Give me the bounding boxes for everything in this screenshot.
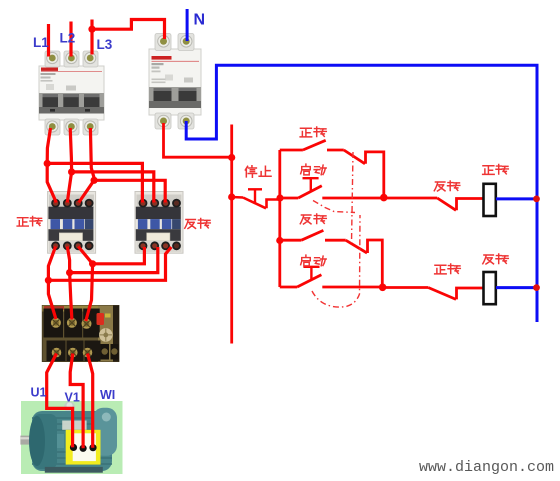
wire coil1 to N (blue) xyxy=(496,197,537,200)
circuit breaker QF2 (2-pole DELIXI DZ47-63) xyxy=(149,34,201,130)
wire swap phase to KM2 out1 xyxy=(93,247,145,264)
mechanical linkage dash (forward NC to reverse NC) xyxy=(352,152,354,243)
wire KM1 out2 to relay T2 xyxy=(67,247,72,320)
label 反转 (coil row2) xyxy=(483,254,509,264)
node branch2 split xyxy=(276,237,283,244)
label 启动 (reverse start) xyxy=(301,255,327,266)
contactor KM1 (forward) xyxy=(48,192,96,254)
coil KM1 正转 xyxy=(484,184,496,216)
node coil1-N junction xyxy=(533,196,540,203)
label 启动 (forward start) xyxy=(301,164,327,175)
wire swap phase to KM2 out3 xyxy=(48,247,171,280)
wire control left rail xyxy=(230,125,233,344)
KM1 NC contact 正转 in coil row 2 xyxy=(383,288,483,300)
wire L3 feed xyxy=(90,20,93,55)
wire relay to motor U1 xyxy=(47,354,73,448)
stop button SB1 (NC) 停止 xyxy=(232,189,280,208)
node forward branch merge xyxy=(380,194,388,202)
start button SB3 启动 (NO) reverse xyxy=(280,267,383,287)
motor M (photo on green background) xyxy=(20,401,122,474)
label 反转 (reverse holding contact) xyxy=(300,214,326,224)
node out3 xyxy=(89,260,96,267)
label 反转 (NC contact row1) xyxy=(434,181,460,191)
label 反转 (right of KM2) xyxy=(185,218,211,228)
svg-text:WI: WI xyxy=(100,388,115,402)
label 正转 (forward holding contact) xyxy=(300,127,326,137)
label 正转 (NC contact row2) xyxy=(435,264,461,274)
KM2 interlock contact (NC) in forward branch xyxy=(344,150,384,198)
coil KM2 反转 xyxy=(484,272,496,304)
wire QF1 pole1 to KM1 terminal1 xyxy=(47,128,56,203)
KM2 NC contact 反转 in coil row 1 xyxy=(384,198,483,210)
label 停止 (stop) xyxy=(245,166,271,177)
wire phase1 branch to KM2 terminal1 xyxy=(47,163,142,202)
start button SB2 启动 (NO) forward xyxy=(280,178,384,198)
wire KM1 out1 to relay T1 xyxy=(48,247,56,320)
wire QF1 pole2 to KM1 terminal2 xyxy=(67,128,71,203)
wire phase3 branch to KM2 terminal3 xyxy=(94,180,165,202)
mechanical linkage dash from forward start button xyxy=(313,201,355,213)
mechanical linkage dash from reverse start button xyxy=(312,215,360,307)
node reverse branch merge xyxy=(379,284,387,292)
wire N feed (blue) into QF2 top xyxy=(186,9,189,41)
KM1 interlock contact (NC) in reverse branch xyxy=(346,240,383,287)
node phase3 xyxy=(91,177,98,184)
svg-text:www.diangon.com: www.diangon.com xyxy=(419,459,554,476)
svg-text:U1: U1 xyxy=(31,386,47,400)
KM2 holding contact 反转 (NO) xyxy=(280,230,346,240)
svg-text:N: N xyxy=(194,12,206,29)
wire L1 feed xyxy=(47,24,50,57)
node rail feed xyxy=(228,154,235,161)
wire phase2 branch to KM2 terminal2 xyxy=(72,172,154,203)
svg-text:L3: L3 xyxy=(97,37,113,52)
wire N bus (blue): QF2 bottom right, around right side xyxy=(186,65,537,322)
wire L3 to QF2 top xyxy=(92,20,165,40)
node phase1 xyxy=(44,160,51,167)
node coil2-N junction xyxy=(533,284,540,291)
wire swap phase to KM2 out2 xyxy=(70,247,158,273)
circuit breaker QF1 (3-pole DELIXI DZ47-63) xyxy=(39,51,104,135)
svg-text:L1: L1 xyxy=(33,35,49,50)
wire branch rail xyxy=(278,150,281,287)
wire relay to motor W1 xyxy=(88,354,93,448)
node stop left xyxy=(228,193,235,200)
wire control feed from QF2 bottom left xyxy=(164,123,233,157)
node L3 junction xyxy=(88,26,95,33)
node out1 xyxy=(45,277,52,284)
svg-text:V1: V1 xyxy=(65,391,80,405)
KM1 holding contact 正转 (NO) xyxy=(280,140,344,150)
wire L2 feed xyxy=(69,22,72,57)
wire KM1 out3 to relay T3 xyxy=(78,247,92,322)
contactor KM2 (reverse) xyxy=(135,192,183,254)
thermal overload relay FR xyxy=(42,306,119,362)
label 正转 (coil row1) xyxy=(483,164,509,174)
wire relay to motor V1 xyxy=(70,354,83,449)
node out2 xyxy=(66,269,73,276)
node after stop xyxy=(276,194,283,201)
label 正转 (left of KM1) xyxy=(17,216,42,226)
node phase2 xyxy=(68,168,75,175)
svg-text:L2: L2 xyxy=(60,31,76,46)
wire coil2 to N (blue) xyxy=(496,286,537,289)
wire QF1 pole3 to KM1 terminal3 xyxy=(79,128,94,203)
